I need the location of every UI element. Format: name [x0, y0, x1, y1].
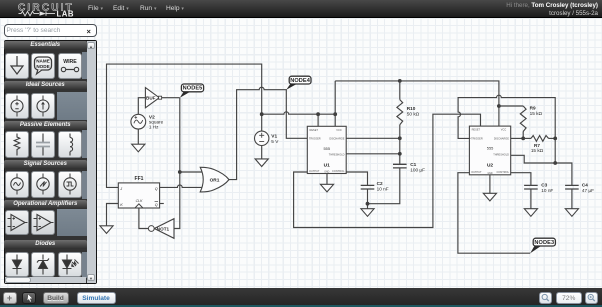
svg-text:NODE3: NODE3 — [534, 240, 554, 246]
svg-text:Q: Q — [155, 203, 158, 207]
icon capacitor — [31, 131, 55, 158]
zoom percent — [556, 292, 583, 304]
svg-text:LAB: LAB — [57, 9, 75, 18]
node junction — [260, 112, 264, 116]
node NODE5 — [181, 84, 203, 92]
svg-text:GND: GND — [324, 172, 329, 174]
svg-text:VCC: VCC — [336, 128, 342, 132]
wire — [137, 129, 139, 144]
wire — [162, 97, 180, 99]
svg-text:10 nF: 10 nF — [377, 187, 389, 192]
menu Help — [166, 5, 184, 12]
svg-text:TRIGGER: TRIGGER — [471, 136, 483, 140]
node flag NODE4 — [286, 84, 296, 90]
wire — [346, 172, 367, 185]
svg-text:TRIGGER: TRIGGER — [309, 137, 321, 141]
cursor tool button — [22, 292, 36, 304]
wire — [107, 64, 262, 187]
svg-text:15 kΩ: 15 kΩ — [531, 148, 544, 153]
svg-text:1 Hz: 1 Hz — [149, 125, 159, 130]
svg-text:RESET: RESET — [472, 128, 481, 132]
workspace name — [549, 10, 598, 17]
node junction — [497, 104, 501, 108]
capacitor C4 — [565, 185, 579, 189]
search box — [4, 24, 97, 38]
wire — [160, 203, 164, 205]
svg-text:CONTROL: CONTROL — [497, 170, 510, 174]
wire — [511, 137, 524, 139]
menu Run — [140, 5, 156, 12]
resistor R7 — [523, 137, 531, 139]
wire — [317, 114, 319, 126]
wire — [458, 95, 555, 163]
svg-text:R9: R9 — [530, 106, 536, 111]
capacitor C1 — [393, 164, 407, 168]
search placeholder — [7, 27, 61, 34]
menu Edit — [113, 5, 129, 12]
svg-text:WIRE: WIRE — [63, 59, 77, 65]
wire — [138, 98, 145, 115]
svg-text:NOT1: NOT1 — [157, 227, 170, 232]
icon op-amp 2 — [31, 210, 55, 235]
ground — [255, 159, 268, 167]
vertical scrollbar — [87, 41, 96, 283]
wire — [160, 185, 203, 187]
sidebar header Passive Elements — [4, 121, 87, 130]
resistor R10 — [399, 81, 401, 100]
icon op-amp — [5, 210, 29, 235]
wire — [511, 173, 531, 186]
ground — [132, 144, 145, 152]
ground — [565, 209, 578, 217]
node junction — [366, 202, 370, 206]
svg-text:CLK: CLK — [136, 199, 143, 203]
or-gate OR1 — [200, 167, 229, 192]
icon voltage source — [5, 93, 29, 119]
wire — [174, 98, 180, 229]
icon sawtooth source — [31, 171, 55, 198]
svg-text:NAME: NAME — [36, 58, 50, 63]
svg-text:100 µF: 100 µF — [410, 168, 425, 173]
node junction — [398, 136, 402, 140]
node junction — [333, 112, 337, 116]
icon wire tool — [58, 53, 82, 79]
op-amp U2 555 timer — [469, 126, 510, 175]
wire — [335, 81, 499, 126]
node junction — [521, 137, 525, 141]
flip-flop FF1 — [118, 183, 159, 208]
node junction — [178, 170, 182, 174]
wire — [367, 189, 369, 209]
icon inductor — [58, 131, 82, 158]
wire — [499, 105, 523, 107]
svg-text:C4: C4 — [582, 182, 588, 187]
wire — [139, 208, 148, 229]
sidebar header Diodes — [4, 240, 87, 249]
wire — [511, 155, 572, 185]
svg-text:THRESHOLD: THRESHOLD — [329, 153, 345, 157]
svg-text:OUTPUT: OUTPUT — [309, 169, 320, 173]
wire — [334, 81, 336, 126]
search close x — [87, 27, 91, 36]
svg-text:OR1: OR1 — [210, 178, 220, 184]
svg-text:U1: U1 — [324, 163, 330, 169]
zoom in button — [585, 292, 599, 304]
wire — [571, 189, 573, 209]
menu File — [88, 5, 103, 12]
icon current source — [31, 93, 55, 119]
wire — [262, 112, 336, 114]
node junction — [398, 79, 402, 83]
ground — [483, 193, 496, 201]
svg-text:DISCHARGE: DISCHARGE — [329, 137, 344, 141]
sidebar header Signal Sources — [4, 160, 87, 169]
sidebar header Essentials — [4, 41, 87, 50]
svg-text:VCC: VCC — [501, 128, 507, 132]
voltage source V2 — [131, 114, 146, 129]
node NODE3 — [533, 238, 555, 246]
node junction — [553, 137, 557, 141]
bottom toolbar — [0, 288, 602, 305]
svg-text:47 µF: 47 µF — [582, 188, 594, 193]
capacitor C2 — [361, 185, 375, 189]
icon name node tool — [31, 53, 55, 79]
inverter NOT1 — [154, 219, 174, 239]
wire — [530, 189, 532, 209]
svg-text:DISCHARGE: DISCHARGE — [494, 136, 509, 140]
sidebar header Operational Amplifiers — [4, 200, 87, 209]
voltage source V1 — [255, 131, 269, 145]
node NODE4 — [289, 76, 311, 84]
svg-text:555: 555 — [324, 146, 331, 151]
node junction — [398, 152, 402, 156]
icon square source — [58, 171, 82, 198]
svg-text:50 kΩ: 50 kΩ — [407, 112, 420, 117]
status strip — [0, 305, 602, 307]
icon zener diode — [31, 252, 55, 277]
svg-text:NODE: NODE — [36, 64, 49, 69]
wire — [346, 153, 400, 155]
svg-text:THRESHOLD: THRESHOLD — [493, 152, 509, 156]
svg-text:5 V: 5 V — [271, 139, 279, 144]
ground — [100, 226, 113, 234]
wire — [489, 175, 491, 194]
node flag NODE5 — [180, 92, 190, 98]
svg-text:NODE5: NODE5 — [183, 86, 203, 92]
wire — [346, 137, 400, 139]
svg-text:C2: C2 — [377, 181, 383, 186]
svg-text:C3: C3 — [541, 182, 547, 187]
add button — [3, 292, 17, 304]
svg-text:15 kΩ: 15 kΩ — [530, 111, 543, 116]
CircuitLab logo — [16, 1, 98, 18]
ground — [361, 209, 374, 217]
wire — [107, 204, 119, 226]
icon diode — [5, 252, 29, 277]
svg-text:Q: Q — [155, 187, 158, 191]
svg-text:RESET: RESET — [310, 128, 319, 132]
icon resistor — [5, 131, 29, 158]
Simulate button — [77, 292, 116, 304]
svg-text:555: 555 — [487, 146, 494, 151]
capacitor C3 — [524, 185, 538, 189]
icon ground tool — [5, 53, 29, 79]
node junction — [553, 161, 557, 165]
svg-text:OUTPUT: OUTPUT — [471, 170, 482, 174]
svg-text:CONTROL: CONTROL — [332, 169, 345, 173]
icon LED — [58, 252, 82, 277]
wire — [294, 114, 481, 227]
svg-text:C1: C1 — [410, 162, 416, 167]
icon sine source — [5, 171, 29, 198]
wire — [180, 171, 203, 173]
op-amp U1 555 timer — [307, 126, 346, 173]
resistor R9 — [520, 106, 526, 132]
ground — [320, 184, 333, 192]
svg-text:U2: U2 — [487, 162, 493, 168]
svg-text:NODE4: NODE4 — [290, 78, 311, 84]
Build button — [43, 292, 69, 304]
zoom out button — [539, 292, 553, 304]
ground — [524, 209, 537, 217]
top menu bar — [0, 0, 602, 18]
svg-text:10 nF: 10 nF — [541, 188, 553, 193]
svg-text:GND: GND — [487, 173, 492, 175]
wire — [261, 146, 263, 159]
buffer BUF1 — [145, 88, 159, 108]
wire — [229, 87, 307, 179]
component palette panel — [4, 40, 97, 284]
sidebar header Ideal Sources — [4, 81, 87, 90]
wire — [458, 173, 530, 254]
node flag NODE3 — [530, 246, 540, 253]
svg-text:BUF: BUF — [146, 96, 156, 101]
horizontal scrollbar — [5, 277, 86, 282]
svg-text:R10: R10 — [407, 106, 416, 111]
wire — [368, 168, 400, 204]
node junction — [316, 112, 320, 116]
wire — [326, 174, 328, 185]
svg-text:J: J — [119, 187, 122, 191]
svg-text:FF1: FF1 — [135, 176, 144, 182]
user greeting — [506, 2, 598, 9]
